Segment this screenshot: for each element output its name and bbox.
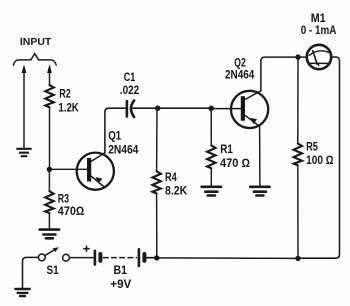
wire battery to S1 [70, 257, 94, 259]
svg-text:R1: R1 [220, 142, 233, 156]
svg-text:1.2K: 1.2K [58, 100, 79, 114]
capacitor C1 [127, 101, 134, 118]
ground R3 [40, 230, 59, 239]
battery B1 [84, 246, 154, 266]
resistor R1 [207, 146, 215, 169]
resistor R5 [294, 144, 302, 166]
svg-text:R5: R5 [306, 140, 318, 154]
svg-text:B1: B1 [114, 263, 128, 277]
resistor R2 [45, 85, 53, 107]
svg-text:2N464: 2N464 [225, 68, 255, 82]
wire node A to R3 [48, 169, 50, 191]
svg-text:2N464: 2N464 [108, 142, 138, 156]
node A junction [47, 167, 52, 172]
meter M1 [307, 45, 331, 69]
wire S1 left lead [23, 257, 39, 288]
transistor Q2 [231, 91, 268, 128]
wire R1 to ground [210, 168, 212, 186]
svg-text:+9V: +9V [110, 277, 131, 291]
wire Q1 collector to C1 [105, 108, 126, 153]
wire node B to node C [158, 107, 212, 109]
wire node D to M1 [298, 56, 307, 58]
input right arrow [49, 73, 51, 86]
resistor R3 [45, 191, 53, 213]
svg-text:100 Ω: 100 Ω [306, 153, 333, 167]
wire bottom rail [157, 257, 298, 260]
wire Q2 emitter [259, 126, 261, 186]
wire node C to Q2 base [211, 108, 241, 110]
node B junction [155, 106, 160, 111]
resistor R4 [152, 171, 160, 193]
node C junction [209, 106, 214, 111]
ground Q2 emitter [250, 187, 269, 196]
svg-text:S1: S1 [47, 263, 59, 277]
node F junction [154, 255, 159, 260]
switch S1 [38, 247, 69, 261]
wire M1 to right rail [301, 57, 340, 258]
input brace [13, 54, 56, 66]
ground S1 [15, 289, 29, 296]
wire node D to R5 [297, 57, 299, 143]
wire node B to R4 [156, 108, 158, 171]
transistor Q1 [77, 153, 114, 190]
wire node A to Q1 base [49, 168, 87, 170]
ground R1 [202, 187, 221, 196]
svg-text:8.2K: 8.2K [165, 183, 187, 197]
wire R4 to node F [156, 194, 158, 258]
svg-text:R2: R2 [59, 87, 71, 101]
wire R2 to node A [49, 107, 51, 169]
wire C1 to node B [133, 107, 158, 109]
wire R5 to node E [297, 165, 299, 258]
input left arrow [23, 73, 25, 149]
wire node C to R1 [210, 108, 212, 145]
node E junction [295, 256, 300, 261]
wire Q2 collector to node D [261, 57, 296, 91]
svg-text:Q1: Q1 [108, 128, 121, 142]
wire R3 to ground [48, 213, 50, 229]
svg-text:0 - 1mA: 0 - 1mA [301, 23, 337, 37]
svg-text:R4: R4 [165, 170, 177, 184]
ground input left [17, 149, 31, 156]
node D junction [295, 54, 300, 59]
svg-text:.022: .022 [120, 83, 140, 97]
svg-text:INPUT: INPUT [20, 37, 51, 48]
svg-text:470 Ω: 470 Ω [220, 156, 250, 170]
svg-text:470Ω: 470Ω [58, 204, 84, 218]
